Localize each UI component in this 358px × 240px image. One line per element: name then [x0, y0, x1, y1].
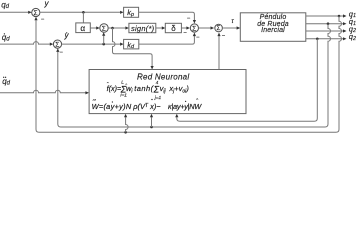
svg-text:i=1: i=1: [120, 92, 127, 98]
svg-text:Σ: Σ: [55, 42, 59, 49]
svg-text:ˆ: ˆ: [107, 83, 109, 89]
block plant: Pendulo de Rueda Inercial: [240, 13, 305, 42]
wire alpha to S2: [90, 27, 96, 29]
node q2 label: [349, 24, 356, 34]
node y-dot label: [64, 31, 70, 40]
svg-text:Σ: Σ: [217, 25, 221, 32]
svg-text:tanh(: tanh(: [134, 84, 154, 93]
wire delta to S3: [181, 27, 186, 29]
node y label: [44, 0, 50, 8]
wire q1 branch up into RN bottom (hop over q1dot bus): [126, 117, 129, 132]
minus sign at S5 bottom input: [59, 50, 63, 56]
node qd-dot input label: [2, 33, 10, 43]
svg-text:f(x)=: f(x)=: [107, 84, 122, 93]
wire sign to delta: [156, 27, 162, 29]
block RN: Red Neuronal: [89, 70, 246, 114]
wire plant output q1dot (line 2): [306, 23, 343, 25]
svg-text:τ: τ: [231, 18, 234, 25]
wire plant output q2 (line 3): [306, 30, 343, 32]
wire fhat from RN top to S4 bottom: [218, 36, 220, 70]
summer S2: [100, 24, 108, 32]
junction dot q1dot: [327, 22, 330, 25]
svg-text:ˆ: ˆ: [151, 100, 153, 106]
svg-text:δ: δ: [171, 24, 176, 33]
block delta: [165, 23, 181, 32]
block sign(*): [129, 23, 156, 32]
node q2dot label: [349, 32, 356, 42]
summer S4: [215, 24, 223, 32]
wire q1dot feedback drop (hops lines 3,4) and bus to S5: [58, 24, 331, 127]
summer S3: [190, 24, 198, 32]
svg-text:−: −: [183, 30, 187, 36]
junction dot r branch: [111, 27, 114, 30]
junction dot q1dot bus to RN: [150, 126, 153, 129]
wire q1dot branch up into RN bottom: [151, 117, 153, 127]
svg-text:L: L: [121, 80, 124, 86]
node q1dot label: [349, 17, 356, 27]
wire q2dot feedback drop and bus to RN: [177, 39, 317, 122]
svg-text:−: −: [222, 34, 226, 40]
wire S4 to plant, node tau: [223, 27, 237, 29]
node q1 label: [349, 9, 356, 19]
wire ydot line: S5 to kd: [62, 43, 121, 45]
svg-text:Red Neuronal: Red Neuronal: [137, 72, 189, 81]
svg-text:−: −: [59, 50, 63, 56]
minus sign at S3 bottom input: [196, 35, 200, 41]
minus sign at S4 bottom input: [222, 34, 226, 40]
wire r path down to RN top (hop over ydot line): [113, 28, 153, 66]
summer S5: [53, 40, 61, 48]
junction dot q2dot: [316, 38, 319, 41]
junction dot q1 bus to RN: [124, 131, 127, 134]
wire kp out to S3 top: [139, 12, 195, 20]
node tau label: [231, 18, 234, 25]
svg-text:4: 4: [156, 80, 159, 86]
wire qd to summer S1: [0, 11, 28, 13]
node qd-ddot input label: [2, 77, 10, 87]
block kp: [124, 7, 139, 17]
svg-text:W=(ay+y)N: W=(ay+y)N: [92, 102, 132, 111]
svg-text:y: y: [44, 0, 50, 8]
minus sign at S3 left input: [183, 30, 187, 36]
svg-text:qd: qd: [1, 0, 9, 10]
svg-text:sign(*): sign(*): [131, 24, 155, 33]
wire kd out to S3 bottom: [139, 36, 195, 44]
wire S2 to sign block: [108, 27, 125, 29]
junction dot q1: [338, 15, 341, 18]
wire y branch down to alpha: [82, 12, 84, 23]
svg-text:Σ: Σ: [192, 25, 196, 32]
wire qd-dot to summer S5 with hop over x=36 vertical: [0, 42, 50, 45]
wire qd-ddot to RN left edge (hops over x=36 and x=57.8 verticals): [0, 90, 86, 93]
svg-text:α: α: [80, 24, 85, 33]
wire plant output q2dot (line 4): [306, 38, 343, 40]
svg-text:Inercial: Inercial: [261, 27, 285, 34]
svg-text:Σ: Σ: [34, 10, 38, 17]
svg-text:ˆ: ˆ: [125, 84, 127, 90]
minus sign at S3 top input: [187, 16, 191, 22]
svg-text:−: −: [196, 35, 200, 41]
svg-text:y: y: [64, 31, 70, 40]
svg-text:xj+voi): xj+voi): [168, 84, 189, 94]
minus sign at S1 bottom input: [41, 17, 45, 23]
svg-text:ˆ: ˆ: [93, 100, 95, 106]
svg-text:j=1: j=1: [154, 95, 162, 101]
block kd: [124, 39, 139, 49]
svg-text:−: −: [187, 16, 191, 22]
svg-text:−: −: [41, 17, 45, 23]
junction dot ydot branch to S2: [102, 43, 105, 46]
wire S3 to S4: [199, 27, 211, 29]
wire ydot branch up into S2: [103, 36, 105, 45]
summer S1: [32, 8, 40, 16]
junction dot y branch: [82, 11, 85, 14]
svg-text:ˆ: ˆ: [196, 100, 198, 106]
block alpha: [76, 23, 91, 33]
svg-text:qd: qd: [2, 77, 10, 87]
wire y line: S1 to kp: [40, 11, 120, 13]
svg-text:qd: qd: [2, 33, 10, 43]
wire q1 feedback drop (hops lines 2,3,4) and bus to S1: [36, 16, 342, 132]
node qd input label: [1, 0, 9, 10]
wire plant output q1 (line 1): [306, 15, 343, 17]
svg-text:Σ: Σ: [102, 25, 106, 32]
